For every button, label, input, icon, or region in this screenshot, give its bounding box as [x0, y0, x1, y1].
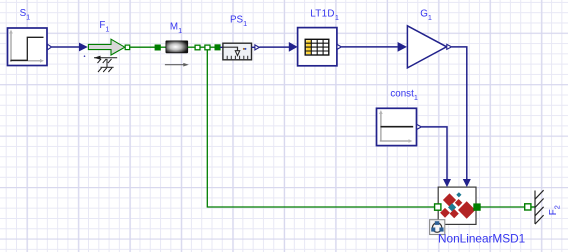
diamonds [443, 193, 456, 206]
wire MSD to F2 [480, 206, 525, 208]
wire [160, 46, 166, 48]
submodel badge [430, 220, 445, 235]
PS1 output port [252, 46, 255, 48]
gain G1 [407, 26, 446, 68]
M1 direction arrow [165, 64, 184, 66]
G1 output port [447, 44, 452, 49]
wire const1 to MSD input (down) [421, 127, 447, 179]
position sensor PS1 [220, 43, 252, 60]
stub to wall [531, 206, 535, 208]
wire G1 to MSD input (down) [452, 47, 467, 180]
constant block const1 [377, 108, 417, 145]
branch node square hollow 2 [205, 45, 210, 50]
F2 flange port [525, 204, 531, 210]
M1 flange_a port [155, 45, 160, 50]
fixed support F2 [535, 190, 544, 224]
arrow into F1 input [79, 43, 88, 52]
wire [210, 46, 215, 48]
arrow into LT1D input [289, 42, 298, 52]
wire PS1 to LT1D [259, 46, 289, 48]
stray dot [84, 55, 86, 57]
wire [200, 46, 205, 48]
force actuator F1 [88, 39, 124, 55]
wire M1 to node [188, 46, 196, 48]
PS1 flange port filled [215, 45, 220, 50]
F1 flange port [125, 45, 130, 50]
wire F1 to M1 [130, 46, 155, 48]
table block LT1D1 [298, 28, 337, 66]
S1 output port [47, 44, 51, 50]
LT1D output port [337, 44, 341, 49]
step source S1 [8, 28, 48, 66]
wire branch down to MSD [207, 50, 434, 207]
NonLinearMSD1 block [438, 187, 476, 224]
node square hollow 1 [195, 45, 200, 50]
arrow into G1 input [398, 42, 407, 52]
MSD left flange port [435, 204, 441, 210]
MSD right flange port [474, 204, 480, 210]
arrow into MSD top left input [443, 179, 451, 187]
wire LT1D to G1 [341, 46, 397, 48]
arrow into MSD top right input [463, 179, 471, 187]
svg-text:NonLinearMSD1: NonLinearMSD1 [438, 231, 525, 245]
mass M1 [166, 41, 188, 53]
wire S1 to F1 [52, 46, 80, 48]
F1 support [94, 56, 117, 72]
const1 output port [417, 124, 422, 129]
